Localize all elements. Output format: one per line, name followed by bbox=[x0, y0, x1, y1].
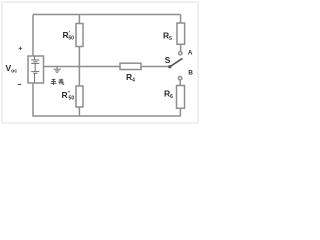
svg-text:B: B bbox=[188, 70, 193, 77]
svg-text:A: A bbox=[188, 50, 193, 57]
svg-text:S: S bbox=[165, 55, 171, 65]
